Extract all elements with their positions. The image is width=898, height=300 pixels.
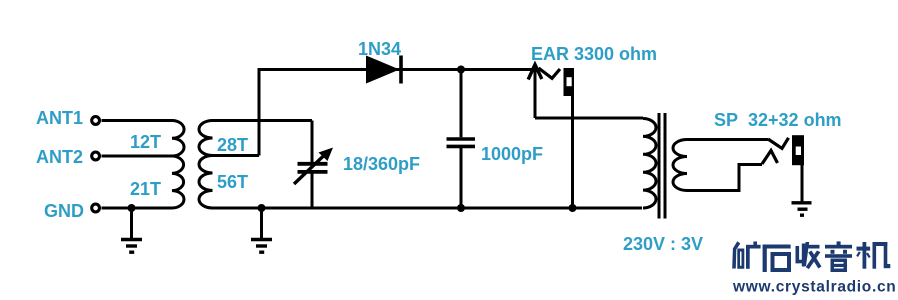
svg-text:56T: 56T bbox=[217, 172, 248, 192]
diode D1 1N34 triangle bbox=[366, 56, 400, 84]
ground G3 stub bbox=[801, 165, 804, 202]
svg-text:21T: 21T bbox=[130, 179, 161, 199]
earphone jack J1 body window bbox=[567, 77, 572, 86]
watermark char ji bbox=[856, 242, 890, 269]
transformer T1 core bars bbox=[658, 113, 661, 219]
speaker jack J2 tip contact V bbox=[768, 138, 789, 149]
watermark char shou bbox=[796, 242, 822, 269]
wire secondary top to J2 bbox=[687, 138, 768, 141]
transformer T1 primary winding bbox=[643, 119, 656, 208]
wire ANT2 to L1 tap bbox=[102, 155, 173, 158]
diode D1 cathode bar bbox=[399, 56, 403, 84]
speaker jack J2 body window bbox=[796, 147, 801, 156]
junction dot top rail / C2 bbox=[457, 66, 465, 74]
watermark char kuang bbox=[732, 241, 760, 268]
ground G2 bars bbox=[251, 238, 272, 241]
earphone jack J1 tip arrowhead bbox=[528, 65, 542, 80]
speaker jack J2 ring contact bbox=[762, 151, 778, 165]
transformer T1 secondary winding bbox=[673, 140, 687, 191]
capacitor C2 stem bottom bbox=[460, 148, 463, 208]
wire L2 tap horizontal bbox=[213, 154, 260, 157]
speaker jack J2 body bbox=[792, 135, 804, 165]
svg-text:28T: 28T bbox=[217, 135, 248, 155]
terminal ANT2 bbox=[92, 152, 100, 160]
ground G2 stub bbox=[260, 208, 263, 238]
antenna coil L1 12T+21T bbox=[172, 121, 184, 209]
wire top rail bbox=[258, 68, 534, 71]
earphone jack J1 tip stem bbox=[534, 66, 537, 118]
variable capacitor C1 stem bottom bbox=[311, 174, 314, 209]
earphone jack J1 sleeve wire bbox=[571, 96, 574, 208]
ground G1 bars bbox=[121, 238, 142, 241]
earphone jack J1 tip contact V bbox=[539, 68, 561, 78]
svg-text:SP 32+32 ohm: SP 32+32 ohm bbox=[714, 110, 842, 130]
watermark char shi bbox=[763, 245, 791, 273]
earphone jack J1 feed to transformer bbox=[535, 117, 643, 120]
svg-text:18/360pF: 18/360pF bbox=[343, 154, 420, 174]
wire bottom rail bbox=[213, 207, 643, 210]
variable capacitor C1 arrow shaft bbox=[294, 154, 326, 185]
svg-text:www.crystalradio.cn: www.crystalradio.cn bbox=[732, 279, 896, 296]
variable capacitor C1 arrowhead bbox=[319, 148, 334, 162]
ground G1 stub bbox=[130, 208, 133, 238]
wire secondary bottom bbox=[687, 165, 762, 191]
capacitor C2 plates bbox=[447, 137, 476, 141]
variable capacitor C1 plates bbox=[298, 162, 328, 166]
svg-text:ANT1: ANT1 bbox=[36, 108, 83, 128]
wire GND to L1 bottom bbox=[102, 207, 173, 210]
terminal GND bbox=[92, 204, 100, 212]
watermark char yin bbox=[825, 241, 852, 272]
terminal ANT1 bbox=[92, 117, 100, 125]
svg-text:1N34: 1N34 bbox=[358, 39, 401, 59]
wire L2 top to C1 bbox=[213, 119, 313, 122]
junction dot bottom rail / C2 bbox=[457, 204, 465, 212]
capacitor C2 stem top bbox=[460, 70, 463, 138]
svg-text:12T: 12T bbox=[130, 132, 161, 152]
junction dot bottom rail / J1 sleeve bbox=[569, 204, 577, 212]
svg-text:EAR 3300 ohm: EAR 3300 ohm bbox=[531, 44, 657, 64]
svg-text:GND: GND bbox=[44, 201, 84, 221]
svg-text:ANT2: ANT2 bbox=[36, 147, 83, 167]
svg-text:1000pF: 1000pF bbox=[481, 144, 543, 164]
junction dot GND wire / G1 bbox=[128, 204, 136, 212]
earphone jack J1 body bbox=[564, 68, 575, 96]
variable capacitor C1 stem top bbox=[311, 121, 314, 163]
junction dot bottom rail / G2 bbox=[258, 204, 266, 212]
detector coil L2 28T+56T bbox=[199, 121, 213, 209]
svg-text:230V : 3V: 230V : 3V bbox=[623, 234, 703, 254]
wire ANT1 to L1 top bbox=[102, 119, 173, 122]
speaker jack J2 sleeve wire bbox=[801, 165, 804, 201]
wire tap riser vertical bbox=[258, 70, 261, 156]
ground G3 bars bbox=[792, 201, 812, 204]
